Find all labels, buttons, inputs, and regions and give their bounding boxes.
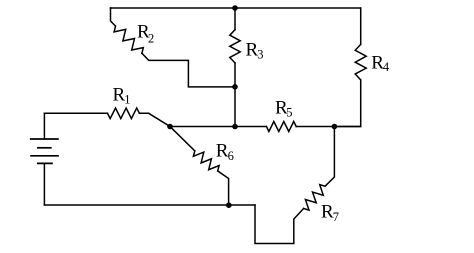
svg-text:2: 2	[148, 32, 154, 46]
wire R6 bottom lead down to bottom wire	[218, 171, 229, 205]
resistor R4	[355, 44, 366, 80]
wire mid horizontal left	[170, 126, 266, 128]
node junction R2/R3	[232, 84, 238, 90]
wire top horizontal	[111, 7, 361, 9]
wire R3 bottom lead to mid wire	[234, 63, 236, 127]
battery B1	[31, 113, 58, 205]
svg-text:3: 3	[257, 48, 263, 62]
svg-text:5: 5	[286, 106, 292, 120]
wire battery top to R1	[44, 112, 107, 114]
wire mid horizontal right	[296, 126, 361, 128]
wire R4 bottom lead to mid junction	[334, 80, 360, 127]
wire R7 top lead up to mid junction	[325, 127, 334, 187]
resistor R6	[193, 151, 219, 171]
resistor R7	[304, 185, 326, 211]
node junction top at R3	[232, 5, 238, 11]
resistor R2	[114, 26, 143, 53]
wire R1 right lead diagonal to node	[139, 113, 170, 126]
node junction R6 bottom wire	[226, 202, 232, 208]
node junction R5/R4/R7	[332, 124, 338, 130]
wire R3 top lead	[234, 8, 236, 30]
resistor R3	[230, 30, 240, 63]
node junction R3 mid wire	[232, 124, 238, 130]
resistor R1	[108, 108, 140, 119]
resistor R5	[266, 122, 296, 132]
wire bottom horizontal	[44, 204, 255, 206]
wire bottom jog down-right	[255, 205, 304, 244]
wire top-right corner down to R4	[360, 8, 362, 44]
svg-text:4: 4	[383, 60, 390, 74]
wire top-left corner down to R2	[111, 8, 116, 26]
node junction R1/R6 mid wire	[167, 124, 173, 130]
svg-text:7: 7	[333, 210, 339, 224]
wire R2 bottom to R3 branch	[142, 53, 235, 87]
svg-text:1: 1	[124, 92, 130, 106]
svg-text:6: 6	[228, 149, 234, 163]
wire node to R6	[170, 127, 195, 151]
